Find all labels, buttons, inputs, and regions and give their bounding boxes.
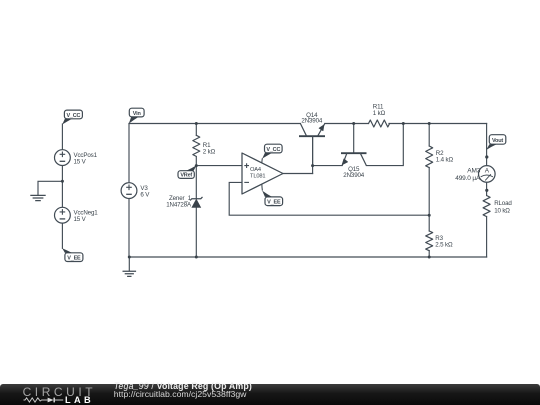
node zener bottom [195, 256, 198, 259]
wire bottom rail [129, 256, 487, 258]
wire R2 top lead [428, 124, 430, 147]
zener diode Zener_1 [190, 197, 202, 208]
wire node to ground left [38, 181, 62, 195]
node V_CC/V_EE midpoint [61, 180, 64, 183]
wire V_CC flag to VccPos1 [61, 124, 63, 150]
wire Q14 emitter to R11 left [325, 123, 369, 125]
node R11 right [402, 122, 405, 125]
wire R1 bottom to zener [195, 157, 197, 199]
svg-text:Vin: Vin [133, 111, 142, 117]
node op-amp output [311, 164, 314, 167]
wire output node vertical to Q14 base [312, 136, 314, 173]
transistor Q15 [341, 153, 367, 165]
node V3 bottom rail [128, 256, 131, 259]
svg-text:1.4 kΩ: 1.4 kΩ [436, 157, 454, 164]
wire VccNeg1 to V_EE flag [61, 223, 63, 248]
svg-text:2.5 kΩ: 2.5 kΩ [435, 241, 453, 248]
svg-text:RLoad: RLoad [494, 200, 512, 207]
CircuitLab logo [23, 385, 97, 399]
wire Vin down to V3 [128, 124, 130, 183]
op-amp V_CC pin wire [261, 158, 264, 163]
svg-text:1 kΩ: 1 kΩ [373, 110, 386, 117]
transistor Q14 [299, 124, 325, 166]
junction dots [61, 122, 431, 259]
wire Q15 base lead [353, 124, 355, 154]
wire Q15 collector to R11 right [366, 124, 403, 166]
ground (bottom rail) [123, 271, 137, 276]
wire Vout column to ammeter [486, 124, 488, 166]
node feedback divider [428, 214, 431, 217]
svg-text:10 kΩ: 10 kΩ [494, 208, 510, 215]
svg-text:2N3904: 2N3904 [343, 172, 364, 179]
op-amp V_EE pin wire [261, 184, 264, 191]
svg-text:499.0 µA: 499.0 µA [455, 175, 481, 182]
flag V_EE [62, 248, 83, 261]
wire VRef node to op-amp + [196, 165, 242, 167]
wire R11 right to Vout column [389, 123, 487, 125]
svg-text:1N4728A: 1N4728A [166, 201, 192, 208]
wire R3 bottom [428, 251, 430, 258]
node VRef [195, 164, 198, 167]
footer title [114, 381, 252, 391]
flag Vout [486, 135, 506, 150]
resistor R1 [193, 135, 200, 156]
svg-text:15 V: 15 V [74, 158, 87, 165]
voltage source VccPos1 [55, 150, 71, 166]
wire ground stub mid [128, 257, 130, 271]
node R1 top [195, 122, 198, 125]
flag V_EE (op-amp) [262, 191, 282, 206]
flag V_CC (op-amp) [262, 144, 282, 158]
ground (left supply) [30, 195, 45, 200]
svg-text:V_CC: V_CC [266, 147, 280, 153]
flag Vin [129, 108, 144, 123]
wire output node to Q15 emitter [313, 165, 343, 167]
svg-text:V_EE: V_EE [67, 256, 81, 262]
wire op-amp inverting feedback [229, 182, 429, 215]
node R3 bottom [428, 256, 431, 259]
svg-text:V_EE: V_EE [267, 200, 281, 206]
voltage source V3 [121, 183, 137, 199]
wire V3 to bottom rail [128, 199, 130, 257]
svg-text:AM3: AM3 [467, 168, 480, 175]
resistor RLoad [483, 196, 490, 217]
node R2 top [428, 122, 431, 125]
svg-text:V_CC: V_CC [66, 113, 80, 119]
svg-text:6 V: 6 V [140, 192, 150, 199]
resistor R11 [369, 120, 390, 127]
resistor R2 [426, 146, 433, 168]
voltage source VccNeg1 [55, 207, 71, 223]
footer bar [0, 384, 540, 405]
node Q15 base [352, 122, 355, 125]
svg-text:2 kΩ: 2 kΩ [203, 148, 216, 155]
svg-text:OA4: OA4 [250, 167, 261, 173]
wire R1 top lead [195, 124, 197, 136]
svg-text:VRef: VRef [180, 173, 192, 179]
flag V_CC [62, 110, 82, 124]
svg-text:TL081: TL081 [250, 173, 265, 179]
svg-text:15 V: 15 V [74, 216, 87, 223]
wire VccPos1 to VccNeg1 [61, 165, 63, 207]
wire zener to bottom rail [195, 207, 197, 257]
ammeter AM3 [479, 155, 496, 192]
wire R2 bottom to R3 top [428, 168, 430, 232]
wire ammeter to RLoad [486, 182, 488, 195]
flag VRef [178, 165, 197, 178]
wire op-amp output [283, 173, 313, 175]
svg-text:2N3904: 2N3904 [301, 118, 322, 125]
op-amp OA4 [242, 153, 283, 194]
resistor R3 [426, 231, 433, 251]
svg-text:Vout: Vout [492, 138, 503, 144]
wire RLoad bottom [486, 217, 488, 258]
wire Vin top rail [129, 123, 300, 125]
